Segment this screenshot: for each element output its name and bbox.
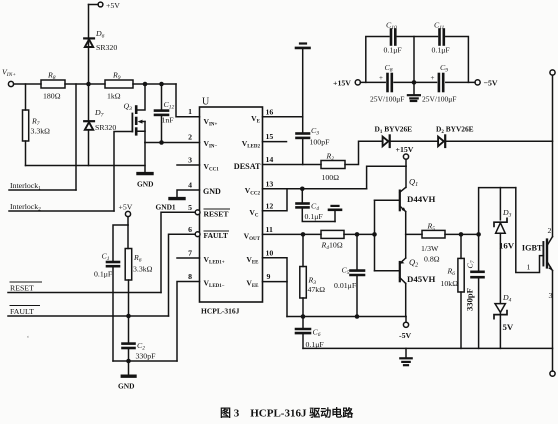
node dot R3 top [301, 232, 306, 237]
capacitor C6 0.1uF [296, 317, 310, 349]
svg-text:1nF: 1nF [162, 116, 175, 125]
wire +15V to Q1 collector [405, 166, 407, 187]
node dot C12 bottom [159, 140, 164, 145]
svg-text:+15V: +15V [396, 145, 414, 154]
svg-text:U: U [202, 97, 210, 108]
svg-text:10: 10 [266, 248, 274, 257]
capacitor C7 330pF [472, 234, 484, 348]
svg-text:3: 3 [549, 291, 553, 300]
svg-text:0.1μF: 0.1μF [432, 46, 451, 55]
svg-text:C10: C10 [386, 21, 397, 32]
wire gate rail down to IGBT pin1 [516, 188, 544, 273]
terminal +5V logic [125, 211, 130, 225]
capacitor C10 0.1uF [391, 30, 395, 45]
wire pin12 tie to VCC2 [263, 189, 288, 211]
wire Q3 source to pin 2 [145, 142, 200, 144]
svg-text:25V/100μF: 25V/100μF [370, 95, 404, 104]
transistor Q1 D44VH [375, 187, 406, 234]
pin numbers right [266, 107, 274, 281]
svg-text:R9: R9 [112, 71, 121, 82]
wire gate top rail [479, 188, 516, 235]
svg-text:C12: C12 [164, 100, 175, 111]
wire VIN+ node [14, 83, 41, 85]
svg-text:R6: R6 [133, 253, 142, 264]
node Interlock2 wire [9, 210, 114, 212]
node FAULT junction dot [126, 314, 131, 319]
svg-text:11: 11 [266, 225, 273, 234]
svg-text:R7: R7 [31, 117, 40, 128]
resistor R6 10k gate-emitter [458, 234, 464, 348]
node FAULT wire [8, 315, 169, 317]
diode D7 SR320 [84, 84, 94, 166]
svg-text:SR320: SR320 [96, 43, 117, 52]
svg-text:C4: C4 [311, 202, 319, 213]
wire supply right riser [446, 37, 469, 83]
svg-text:D4: D4 [502, 293, 512, 304]
pin labels right [234, 114, 261, 289]
svg-text:10kΩ: 10kΩ [441, 279, 459, 288]
svg-text:15: 15 [266, 132, 274, 141]
svg-text:0.8Ω: 0.8Ω [424, 255, 440, 264]
svg-text:VCC2: VCC2 [245, 186, 261, 197]
pin numbers left [188, 107, 192, 281]
wire supply left riser [366, 37, 389, 83]
resistor R7 3.3k [23, 84, 29, 166]
wire pin8 to ground bus [177, 282, 200, 362]
svg-text:1: 1 [188, 107, 192, 116]
wire supply mid column [413, 37, 415, 83]
terminal +15V drive [403, 154, 408, 166]
resistor R8 180ohm [41, 80, 65, 88]
svg-text:RESET: RESET [10, 284, 34, 293]
ground (upper, VE) [296, 44, 310, 117]
wire pin10 VEE [263, 258, 288, 282]
svg-text:C7: C7 [466, 260, 477, 268]
svg-text:VLED2: VLED2 [242, 139, 261, 150]
wire D1 to D2 [390, 140, 438, 142]
svg-text:0.1μF: 0.1μF [384, 46, 403, 55]
wire Interlock2 riser to Q3 gate [114, 132, 132, 212]
svg-text:VE: VE [251, 114, 260, 125]
diode D2 BYV26E [438, 135, 445, 147]
svg-text:VOUT: VOUT [244, 231, 261, 242]
resistor R4 10ohm [321, 230, 344, 238]
node dot bases-VOUT [372, 232, 377, 237]
transistor Q2 D45VH [375, 234, 406, 316]
svg-text:+5V: +5V [119, 203, 133, 212]
svg-text:3.3kΩ: 3.3kΩ [31, 127, 51, 136]
svg-text:VIN+: VIN+ [204, 117, 218, 128]
svg-text:180Ω: 180Ω [43, 92, 61, 101]
svg-text:Interlock1: Interlock1 [10, 181, 41, 192]
wire D2 to collector line [445, 140, 553, 142]
svg-text:1kΩ: 1kΩ [107, 92, 121, 101]
svg-text:25V/100μF: 25V/100μF [422, 95, 456, 104]
svg-text:2: 2 [188, 133, 192, 142]
capacitor C5 0.01uF [351, 234, 365, 316]
svg-text:+: + [431, 74, 435, 82]
svg-text:1: 1 [527, 263, 531, 272]
capacitor C12 1nF [155, 84, 168, 143]
svg-text:R2: R2 [326, 152, 335, 163]
wire IGBT collector [552, 75, 554, 236]
terminal collector [550, 70, 555, 75]
svg-text:−5V: −5V [484, 79, 498, 88]
node dots gate node [459, 232, 481, 237]
wire supply top rail mid [397, 36, 437, 38]
wire emitter rail [303, 347, 553, 349]
svg-text:C2: C2 [137, 341, 145, 352]
svg-text:D3: D3 [502, 208, 512, 219]
terminal -5V [403, 317, 408, 328]
capacitor C9 25V/100uF [439, 74, 443, 91]
svg-text:8: 8 [188, 272, 192, 281]
svg-text:47kΩ: 47kΩ [308, 285, 326, 294]
svg-text:R6: R6 [447, 267, 456, 278]
capacitor C8 25V/100uF [388, 74, 392, 91]
diode D1 BYV26E [383, 135, 390, 147]
wire C1 C2 pin8 ground bus [113, 360, 177, 362]
wire FAULT riser to pin6 [169, 234, 196, 316]
svg-text:+5V: +5V [106, 1, 120, 10]
wire R5 output node [445, 233, 479, 235]
resistor R6 3.3k [125, 225, 132, 343]
terminal VIN+ [8, 81, 13, 86]
svg-text:-5V: -5V [399, 331, 411, 340]
svg-text:16: 16 [266, 107, 274, 116]
ground GND1 [170, 197, 184, 200]
terminal +5V [89, 2, 103, 7]
svg-text:DESAT: DESAT [234, 162, 261, 171]
pin 6 bubble [195, 232, 200, 237]
svg-text:D6: D6 [95, 29, 105, 40]
svg-text:0.1μF: 0.1μF [94, 270, 113, 279]
wire to pin 1 [176, 84, 200, 117]
ground (bottom left) [122, 361, 135, 376]
wire bases riser [374, 200, 376, 270]
wire ground line W2 [26, 165, 146, 167]
svg-text:HCPL-316J: HCPL-316J [201, 307, 240, 316]
wire R2 to D1 [345, 141, 382, 164]
capacitor C2 330pF [123, 344, 135, 361]
svg-text:+15V: +15V [333, 79, 351, 88]
wire zener column top [499, 188, 501, 220]
resistor R2 100ohm [321, 161, 345, 169]
svg-text:C8: C8 [385, 63, 393, 74]
svg-text:VIN+: VIN+ [2, 68, 16, 79]
svg-text:图 3 HCPL-316J 驱动电路: 图 3 HCPL-316J 驱动电路 [220, 406, 354, 420]
svg-text:R5: R5 [427, 222, 436, 233]
svg-text:14: 14 [266, 155, 274, 164]
svg-text:VCC1: VCC1 [204, 162, 220, 173]
wire pin4 to GND1 [177, 190, 200, 198]
svg-text:VEE: VEE [246, 279, 259, 290]
svg-text:VLED1−: VLED1− [204, 279, 225, 290]
svg-text:9: 9 [267, 272, 271, 281]
svg-text:5: 5 [188, 203, 192, 212]
svg-text:4: 4 [188, 181, 192, 190]
svg-text:Q3: Q3 [124, 102, 133, 113]
svg-text:100Ω: 100Ω [322, 173, 340, 182]
svg-text:VIN−: VIN− [204, 139, 218, 150]
node Interlock1 wire [9, 189, 76, 191]
svg-text:Interlock2: Interlock2 [10, 202, 41, 213]
ground (supply mid earth) [408, 82, 420, 101]
wire R4 to bases [344, 233, 375, 235]
svg-text:C5: C5 [342, 266, 350, 277]
op-amp U1 HCPL-316J IC body [200, 107, 263, 302]
terminal emitter [550, 371, 555, 376]
svg-text:FAULT: FAULT [204, 231, 228, 240]
ground (logic GND below Q3) [138, 143, 152, 174]
svg-text:1/3W: 1/3W [421, 244, 439, 253]
node dot supply mid [412, 80, 417, 85]
svg-text:100pF: 100pF [310, 138, 331, 147]
transistor Q3 [132, 84, 145, 143]
svg-text:0.1μF: 0.1μF [306, 340, 325, 349]
wire node A [65, 83, 105, 85]
wire R9 to pin1 riser [133, 83, 176, 85]
wire pin3 stub [177, 164, 200, 166]
resistor R5 0.8ohm [422, 230, 445, 238]
ground (earth below rail) [400, 348, 411, 365]
svg-text:13: 13 [266, 179, 274, 188]
node dot C2 bottom [126, 359, 131, 364]
node dot C5 top [355, 232, 360, 237]
wire pin14 DESAT row [263, 164, 322, 166]
capacitor C4 0.1uF [297, 189, 336, 222]
svg-text:7: 7 [188, 249, 192, 258]
capacitor C11 0.1uF [440, 30, 444, 45]
svg-text:GND: GND [118, 382, 134, 391]
svg-text:VLED1+: VLED1+ [204, 255, 225, 266]
ground (C4) [329, 206, 341, 222]
svg-text:D45VH: D45VH [407, 274, 436, 284]
svg-text:‘: ‘ [27, 335, 29, 342]
node FAULT label [10, 306, 41, 317]
terminal +15V supply [355, 80, 360, 85]
svg-text:C3: C3 [311, 126, 319, 137]
svg-text:3.3kΩ: 3.3kΩ [133, 265, 153, 274]
svg-text:330pF: 330pF [465, 288, 475, 311]
svg-text:5V: 5V [503, 322, 514, 332]
terminal -5V supply [475, 80, 480, 85]
svg-text:R410Ω: R410Ω [321, 241, 343, 252]
svg-text:Q2: Q2 [409, 257, 418, 269]
svg-text:SR320: SR320 [95, 123, 116, 132]
wire pin13 VCC2 row [263, 188, 367, 190]
svg-text:330pF: 330pF [136, 352, 157, 361]
svg-text:12: 12 [266, 201, 274, 210]
diode D4 zener 5V [494, 304, 507, 349]
wire +5V down to node A [88, 5, 90, 85]
node dot C4 top [300, 187, 305, 192]
wire supply bottom rail [360, 81, 475, 83]
capacitor C3 100pF [297, 117, 310, 165]
svg-text:GND1: GND1 [156, 203, 176, 212]
svg-text:16V: 16V [499, 241, 515, 251]
svg-text:GND: GND [203, 187, 221, 196]
pin labels left [203, 117, 230, 289]
svg-text:GND: GND [137, 180, 153, 189]
wire pin7 stub [177, 257, 200, 259]
svg-text:FAULT: FAULT [10, 307, 34, 316]
svg-text:D44VH: D44VH [407, 194, 436, 204]
svg-text:C6: C6 [313, 328, 321, 339]
node junction dots on top wire [86, 82, 164, 87]
wire Interlock1 riser [75, 84, 77, 190]
svg-text:+: + [379, 74, 383, 82]
capacitor C1 0.1uF [107, 262, 119, 361]
wire IGBT emitter [552, 271, 554, 371]
wire Q emitters to R5 [406, 233, 422, 235]
wire VEE bus [287, 316, 406, 318]
svg-text:VEE: VEE [246, 255, 259, 266]
node RESET label [10, 282, 43, 293]
wire pin15 stub [263, 141, 287, 143]
pin 5 bubble [195, 210, 200, 215]
resistor R3 47k [300, 234, 307, 316]
svg-text:C1: C1 [102, 252, 110, 263]
svg-text:D7: D7 [94, 108, 104, 119]
wire pin9 VEE [263, 282, 288, 317]
node RESET wire [8, 292, 161, 294]
transistor IGBT [543, 237, 552, 271]
node dots VEE bus [301, 314, 360, 319]
svg-text:0.1μF: 0.1μF [305, 212, 324, 221]
svg-text:3: 3 [188, 156, 192, 165]
diode D6 SR320 [84, 38, 94, 47]
svg-text:0.01μF: 0.01μF [334, 281, 357, 290]
wire pin11 VOUT row [263, 233, 322, 235]
wire RESET riser to pin5 [161, 212, 195, 292]
wire +15V jog to VCC2 [367, 166, 406, 189]
svg-text:D1 BYV26E: D1 BYV26E [375, 125, 413, 136]
svg-text:R8: R8 [47, 71, 56, 82]
resistor R9 1k [105, 80, 133, 88]
svg-text:C9: C9 [440, 63, 448, 74]
svg-text:Q1: Q1 [409, 177, 418, 189]
wire pin16 to C3 column [263, 116, 303, 118]
svg-text:RESET: RESET [204, 209, 229, 218]
svg-text:2: 2 [548, 226, 552, 235]
svg-text:VC: VC [249, 208, 258, 219]
svg-text:IGBT: IGBT [522, 244, 543, 253]
diode D3 zener 16V [494, 218, 507, 303]
wire +5V branch to C1 [113, 225, 128, 262]
svg-text:6: 6 [188, 225, 192, 234]
svg-text:D2 BYV26E: D2 BYV26E [436, 125, 474, 136]
svg-text:C11: C11 [434, 21, 445, 32]
